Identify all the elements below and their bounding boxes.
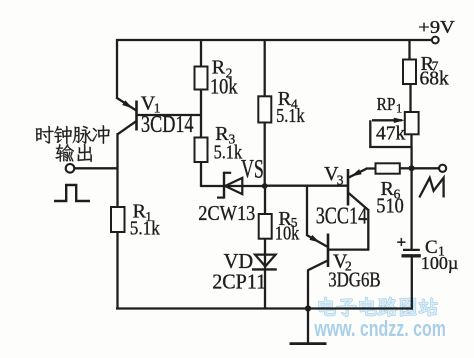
label 3CC14 (316, 203, 368, 230)
transistor V1 (116, 98, 201, 135)
wire V3 collector down (367, 209, 369, 251)
wire R3 to zener (200, 162, 202, 187)
transistor V2 (307, 234, 368, 271)
label R7 value (420, 69, 450, 90)
label 3CD14 (141, 112, 194, 138)
svg-text:+9V: +9V (418, 17, 455, 37)
svg-text:68k: 68k (420, 69, 450, 90)
wire V2 to ground rail (307, 270, 309, 309)
label VS (241, 155, 264, 184)
svg-text:5.1k: 5.1k (130, 219, 160, 240)
wire R5 to VD (264, 239, 266, 270)
resistor R1 (111, 207, 125, 232)
node B junction dot (409, 165, 415, 171)
ground (290, 309, 327, 344)
svg-text:510: 510 (376, 194, 404, 218)
label R4 value (276, 106, 305, 127)
label R4 (278, 88, 298, 111)
svg-text:VS: VS (241, 155, 264, 184)
label 3DG6B (328, 268, 381, 292)
svg-text:2CW13: 2CW13 (198, 201, 255, 225)
watermark site name (319, 297, 437, 316)
label 2CP11 (212, 270, 266, 294)
wire R4 top (264, 40, 266, 96)
svg-text:3CD14: 3CD14 (141, 112, 194, 138)
wire R4 to node A (264, 123, 266, 187)
resistor R7 (403, 60, 416, 85)
label R2 (212, 57, 233, 81)
+9V terminal (432, 37, 439, 44)
wire bottom rail (116, 307, 413, 309)
svg-text:www. cndzz. com: www. cndzz. com (314, 316, 446, 341)
node A junction dot (262, 183, 268, 189)
wire node A to R5 (264, 186, 266, 214)
diode VD (252, 255, 277, 270)
svg-text:RP: RP (377, 94, 396, 114)
resistor R3 (195, 138, 208, 163)
resistor R2 (195, 67, 208, 90)
label R6 (381, 178, 401, 201)
label C1 (425, 237, 445, 258)
wire left column lower (116, 133, 118, 309)
wire R6 to node B (400, 167, 410, 169)
resistor R6 (376, 163, 400, 173)
label clock pulse input line2 (55, 144, 91, 162)
svg-text:5.1k: 5.1k (276, 106, 305, 127)
wire C1 to bottom rail (411, 256, 413, 310)
wire VD to bottom rail (264, 270, 266, 309)
svg-text:3CC14: 3CC14 (316, 203, 368, 230)
label R3 value (214, 143, 243, 164)
svg-text:3DG6B: 3DG6B (328, 268, 381, 292)
label R1 (133, 201, 152, 225)
svg-text:47k: 47k (376, 124, 406, 145)
label R5 (278, 208, 297, 230)
label R2 value (210, 74, 238, 99)
ground junction dot (305, 305, 311, 311)
svg-text:10k: 10k (210, 74, 238, 99)
label R6 value (376, 194, 404, 218)
transistor V3 (348, 169, 376, 211)
label R3 (215, 123, 235, 147)
wire base drop to V2 (306, 186, 308, 236)
wire top supply rail (117, 39, 433, 41)
label RP1 (377, 94, 403, 115)
label R7 (421, 53, 439, 75)
svg-text:3: 3 (337, 172, 344, 187)
wire node A to V3 base (265, 185, 347, 187)
wire left column upper (116, 39, 118, 99)
svg-text:5.1k: 5.1k (214, 143, 243, 164)
label V2 (333, 251, 352, 274)
resistor R4 (258, 96, 271, 122)
label V3 (324, 163, 344, 187)
resistor R5 (259, 214, 272, 239)
svg-text:100µ: 100µ (421, 253, 459, 273)
label R5 value (275, 224, 300, 245)
pulse waveform symbol (54, 185, 90, 201)
label R1 value (130, 219, 160, 240)
svg-text:1: 1 (396, 102, 402, 116)
svg-text:+: + (397, 233, 407, 252)
input terminal (66, 164, 75, 173)
wire R7 top (408, 40, 410, 60)
wire input to left column (75, 167, 118, 169)
label V1 (141, 93, 161, 116)
wire R7 to RP1 (409, 84, 411, 112)
svg-text:2CP11: 2CP11 (212, 270, 266, 294)
potentiometer RP1 (370, 112, 418, 147)
label VD (224, 249, 254, 273)
capacitor C1 (397, 233, 421, 256)
wire R2 top (200, 40, 202, 67)
wire R2 to base node (200, 90, 202, 138)
svg-text:10k: 10k (275, 224, 300, 245)
label C1 value (421, 253, 459, 273)
label RP1 value (376, 124, 406, 145)
label +9V (418, 17, 455, 37)
label clock pulse input line1 (36, 125, 110, 144)
zener diode VS (201, 172, 264, 199)
wire node B to output (413, 167, 439, 169)
watermark url (314, 316, 446, 341)
label 2CW13 (198, 201, 255, 225)
wire RP1 to C1 (410, 147, 412, 250)
sawtooth waveform symbol (419, 178, 443, 198)
output terminal (439, 165, 446, 172)
